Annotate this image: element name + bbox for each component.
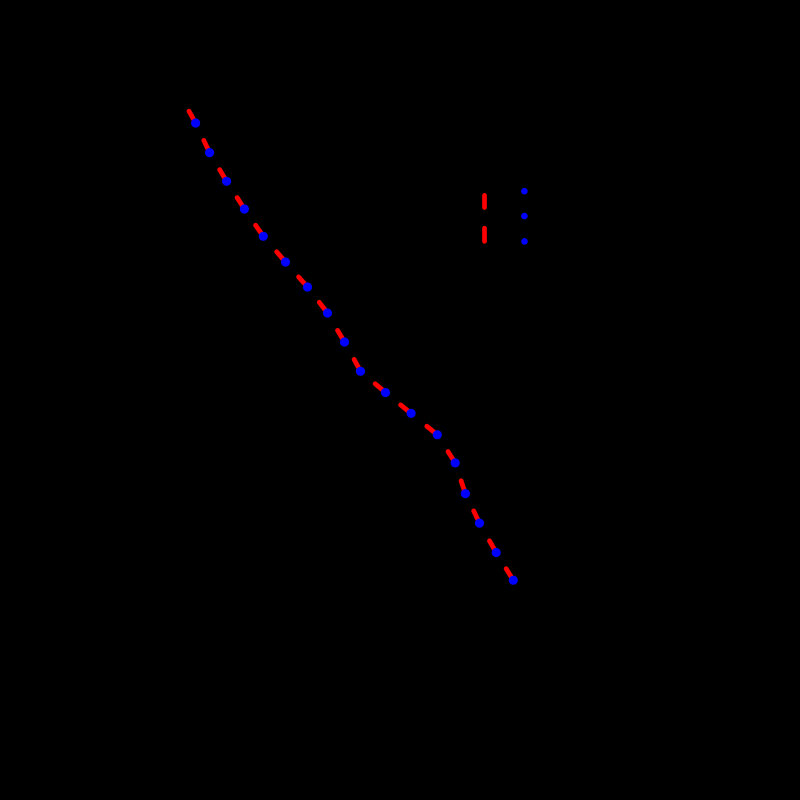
wire dash 11 — [375, 384, 385, 393]
wire dash 12 — [401, 405, 412, 414]
legend blue points — [521, 188, 528, 245]
legend red dashed vertical line — [482, 195, 487, 241]
blue data points — [191, 118, 518, 584]
wire dash 2 — [204, 140, 210, 152]
node P16 — [475, 519, 484, 528]
node P3 — [222, 177, 231, 186]
node P15 — [461, 489, 470, 498]
wire dash 17 — [490, 541, 497, 553]
wire dash 7 — [299, 277, 308, 287]
wire dash 14 — [448, 452, 455, 463]
node P2 — [205, 148, 214, 157]
node P17 — [492, 548, 501, 557]
wire dash 1 — [189, 111, 196, 123]
wire dash 5 — [256, 225, 264, 236]
red dashed fitted line — [189, 111, 513, 580]
node P5 — [259, 232, 268, 241]
node P8 — [323, 308, 332, 317]
wire dash 13 — [427, 426, 438, 435]
node P12 — [407, 409, 416, 418]
node P6 — [281, 257, 290, 266]
node P1 — [191, 118, 200, 127]
node L2 — [521, 213, 528, 220]
wire dash 8 — [319, 302, 327, 313]
wire dash 4 — [237, 198, 244, 209]
wire legend dash 1 — [482, 195, 487, 207]
node P10 — [356, 367, 365, 376]
wire dash 6 — [277, 252, 286, 262]
node P13 — [433, 430, 442, 439]
node P11 — [381, 388, 390, 397]
node P18 — [509, 576, 518, 585]
wire dash 15 — [461, 481, 465, 494]
wire dash 9 — [338, 330, 345, 342]
node P9 — [340, 337, 349, 346]
node L3 — [521, 238, 528, 245]
wire dash 10 — [354, 359, 360, 371]
wire dash 18 — [506, 569, 513, 581]
node L1 — [521, 188, 528, 195]
node P4 — [240, 204, 249, 213]
wire dash 16 — [474, 511, 480, 523]
node P14 — [451, 458, 460, 467]
wire dash 3 — [220, 170, 227, 182]
node P7 — [303, 282, 312, 291]
wire legend dash 2 — [482, 228, 487, 241]
